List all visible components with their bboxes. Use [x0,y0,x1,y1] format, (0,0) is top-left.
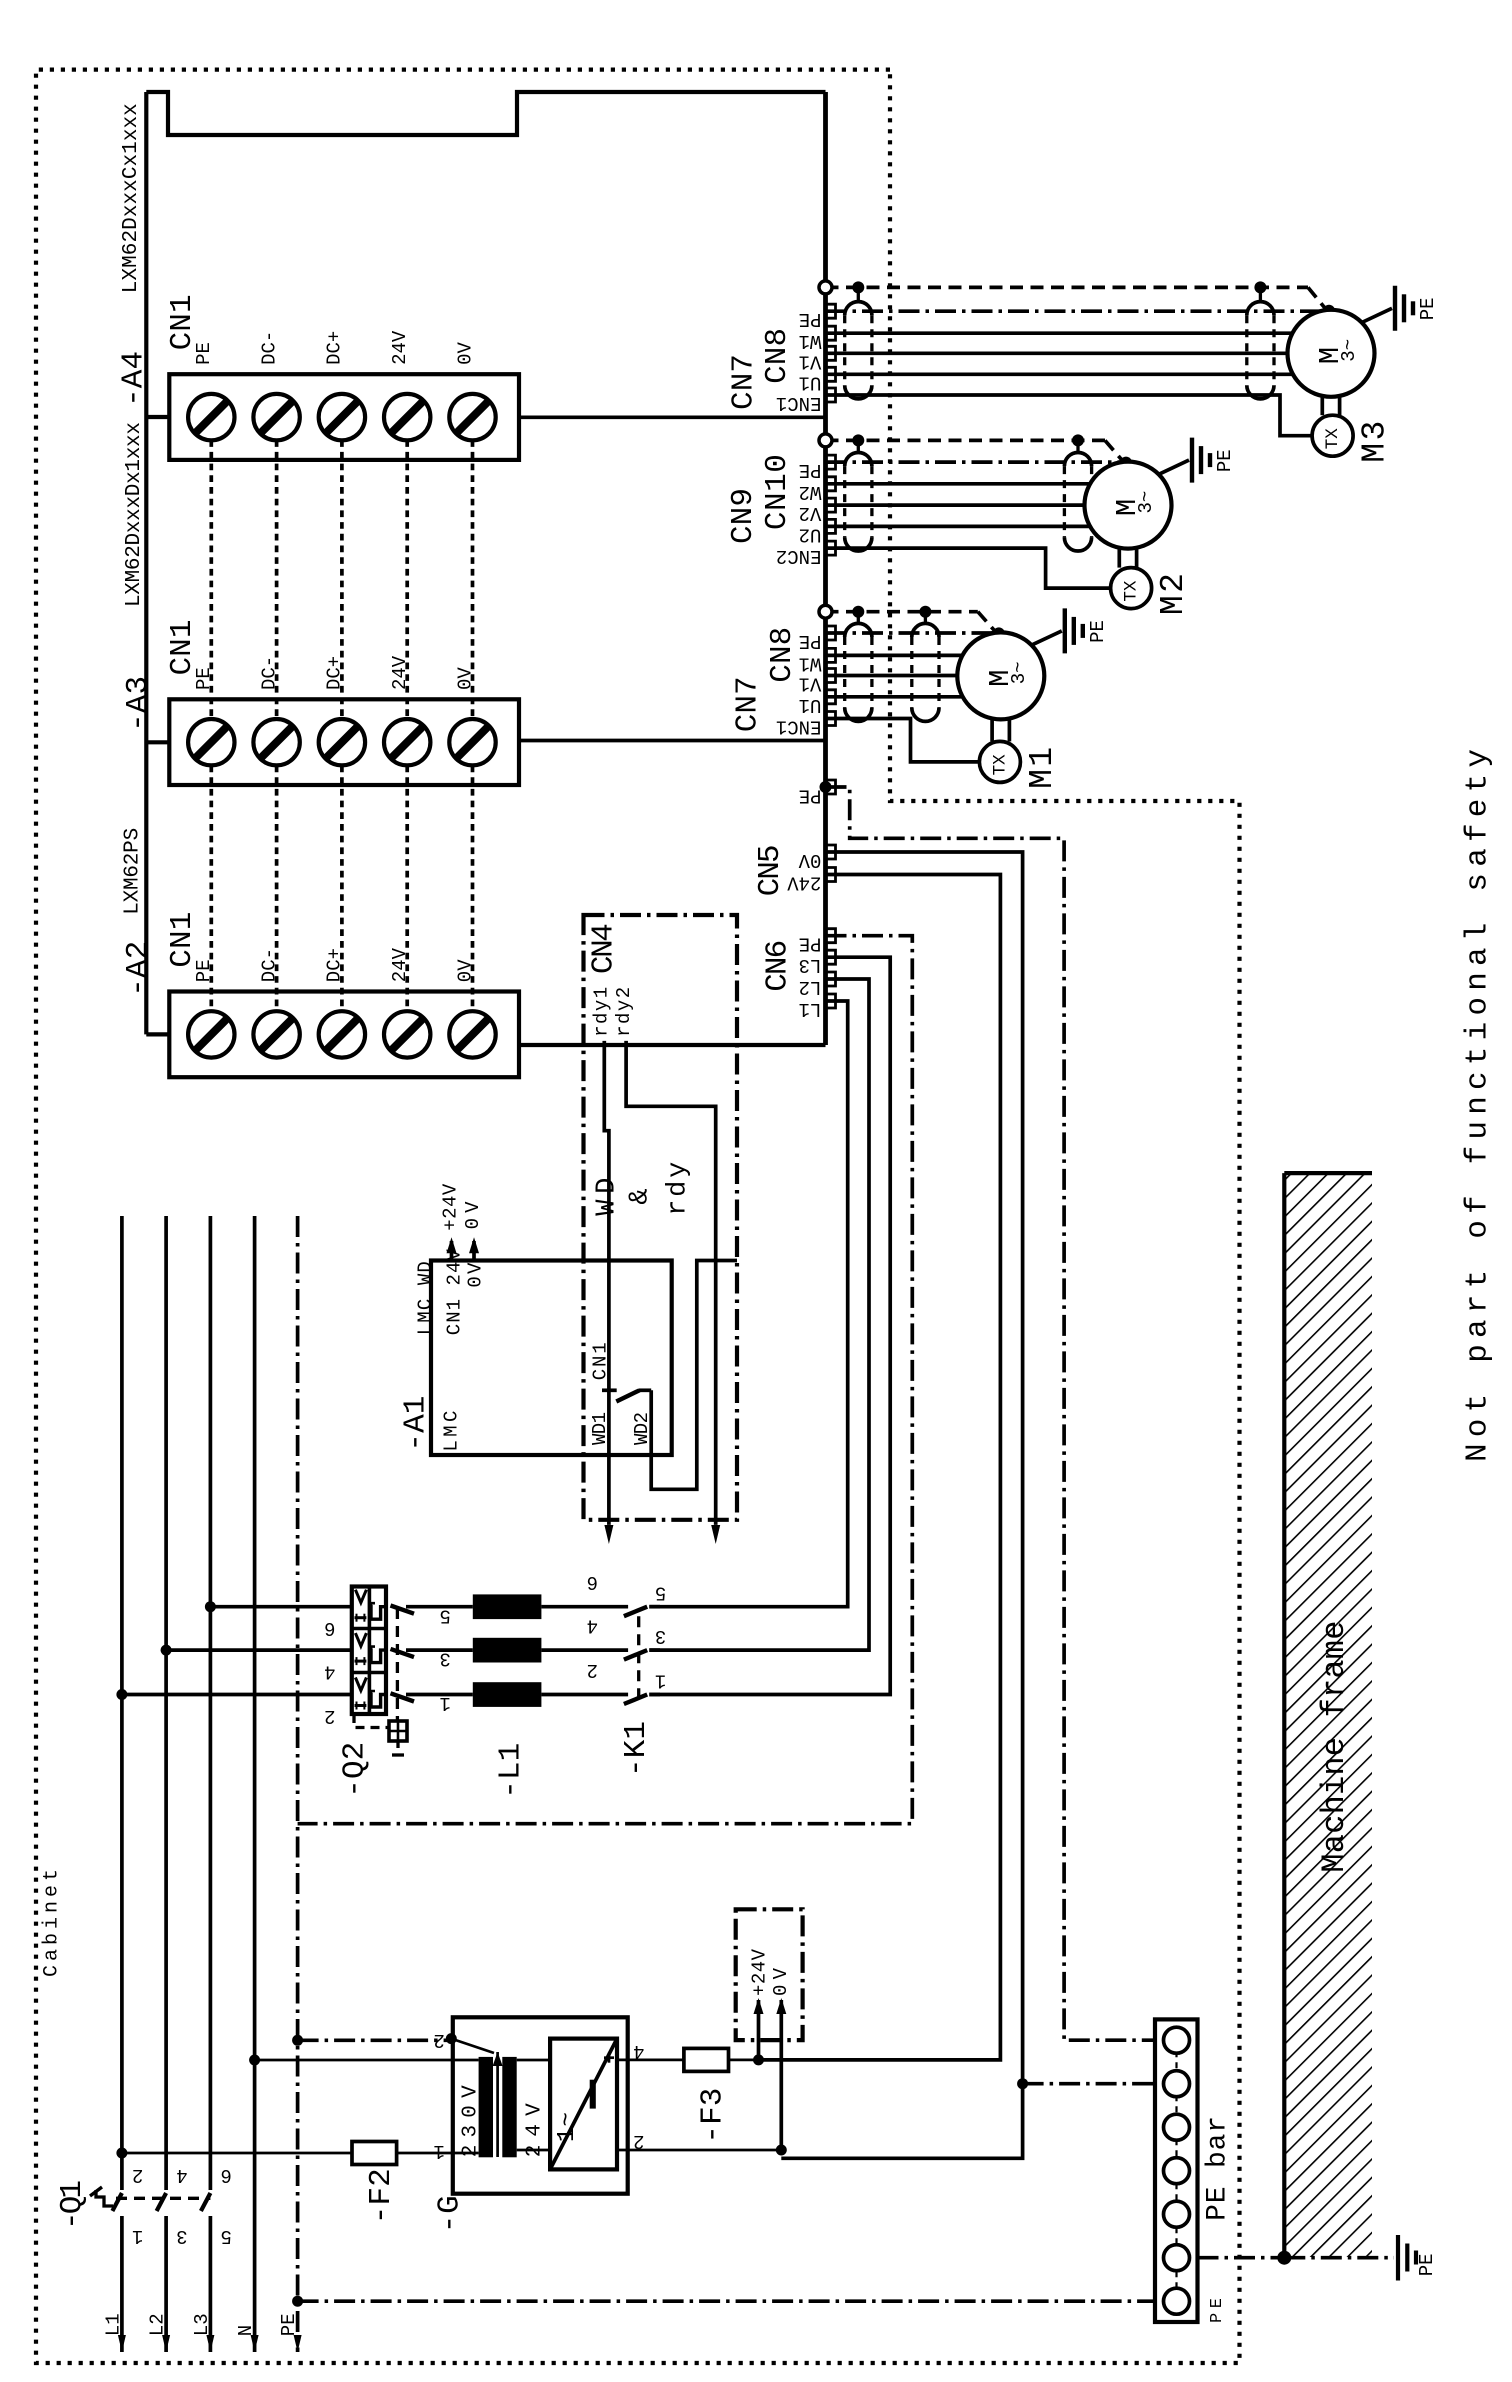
PE bar hole [1164,2027,1190,2053]
svg-text:-L1: -L1 [494,1743,529,1799]
mains line N [253,1216,257,2352]
svg-text:CN5: CN5 [753,844,788,896]
wire F3 out [729,2059,759,2062]
svg-text:rdy: rdy [664,1162,694,1216]
drive unit LXM62 outline [146,92,825,135]
screw slash 24V -A3 [391,726,423,758]
machine frame top cap [1284,1171,1372,1175]
PE bar hole [1164,2158,1190,2184]
junction dot shield M1 clamp 2 [919,606,931,618]
screw terminal DC- -A4 [253,394,299,440]
screw terminal 24V -A3 [384,719,430,765]
dc bus wire [209,766,213,1012]
screw terminal DC+ -A4 [319,394,365,440]
fuse F3 [684,2048,729,2071]
svg-text:W1: W1 [799,652,822,674]
svg-text:6: 6 [324,1617,335,1639]
motor M1 circle [957,632,1044,719]
PE bar hole [1164,2071,1190,2097]
wire WD2 to WD logic [651,1261,737,1490]
svg-text:5: 5 [439,1604,450,1626]
svg-text:L3: L3 [191,2313,213,2336]
svg-text:rdy2: rdy2 [613,987,635,1037]
ground bar long machine [1396,2235,1400,2281]
svg-text:PE: PE [1416,2253,1438,2276]
svg-text:PE: PE [278,2313,300,2336]
svg-text:1: 1 [655,1670,666,1692]
connector pin boxes on drive edge [828,626,836,640]
svg-text:-K1: -K1 [619,1721,654,1777]
PE wire M3 [826,309,1327,313]
terminal block CN1 of -A4 [169,374,519,460]
svg-text:L1: L1 [799,998,822,1020]
svg-text:PE: PE [799,459,822,481]
rectifier diagonal [550,2039,617,2170]
ENC cable M1 [826,719,980,762]
ground bar long M3 [1393,286,1397,331]
screw slash DC- -A2 [261,1018,293,1050]
cable shield clamp M2 clamp 1 [843,466,846,537]
svg-text:-F2: -F2 [364,2168,399,2224]
terminal block CN1 of -A2 [169,992,519,1078]
K1 blade row 3 [624,1695,647,1705]
svg-text:PE bar: PE bar [1203,2116,1234,2221]
dc bus wire [471,766,475,1012]
wire winding to rectifier top [517,2059,550,2062]
screw terminal 0V -A4 [449,394,495,440]
screw slash DC- -A3 [261,726,293,758]
dc bus wire [405,440,409,719]
mains line L3 [209,1216,213,2352]
arrow rdy1/WD1 signal [604,1525,613,1544]
svg-text:Machine frame: Machine frame [1316,1621,1353,1873]
Q2 manual operator [389,1721,407,1741]
dc bus wire [275,440,279,719]
arrow mains L3 [206,2335,214,2352]
line choke L1 [473,1594,542,1619]
wire CN6 PE to mains PE [298,936,913,1824]
svg-text:DC-: DC- [258,656,280,690]
contact terminal WD2 [639,1388,651,1392]
phase wire L1 to Q2 [122,1693,352,1697]
junction dot shield M2 clamp 2 [1072,434,1084,446]
encoder TX M1 [979,741,1020,782]
screw terminal DC+ -A3 [319,719,365,765]
svg-text:N: N [235,2325,257,2336]
Q2 blade row 1 [391,1606,415,1614]
screw slash PE -A4 [195,401,227,433]
main switch Q1 [119,2190,124,2216]
svg-text:DC+: DC+ [324,331,346,365]
svg-text:-A4: -A4 [116,351,151,407]
svg-text:PE: PE [1417,297,1439,320]
junction dot N control tap [249,2055,260,2066]
screw terminal 24V -A4 [384,394,430,440]
svg-text:V2: V2 [799,502,822,524]
wire PE to PE bar bottom [298,2299,1155,2303]
controller A1 LMC box [431,1261,672,1456]
encoder TX M2 [1111,568,1152,609]
wire 0V CN5 to supply [781,852,1022,2158]
arrow mains PE [294,2335,302,2352]
svg-text:ENC1: ENC1 [776,392,822,414]
wire V M2 [826,503,1085,507]
svg-text:ENC1: ENC1 [776,716,822,738]
junction dot unit PE [820,781,832,793]
wire 0V into A1 [472,1241,476,1261]
screw slash 24V -A2 [391,1018,423,1050]
arrow mains L2 [162,2335,170,2352]
shield arrow line [451,2039,494,2053]
svg-text:3~: 3~ [1338,339,1360,362]
power supply unit -G box [453,2017,628,2193]
ground bar short machine [1414,2251,1418,2265]
Q2 linkage [396,1608,399,1721]
svg-text:0V: 0V [454,341,476,364]
ground connect diagonal M2 [1159,460,1189,474]
svg-text:CN1: CN1 [165,294,200,350]
screw slash DC+ -A3 [326,726,358,758]
svg-text:CN8: CN8 [760,328,795,384]
motor M2 circle [1085,462,1172,549]
wire L1 to F2 [122,2152,352,2155]
svg-text:1: 1 [433,2140,444,2162]
svg-text:U1: U1 [799,694,822,716]
svg-text:0V: 0V [465,1262,487,1288]
svg-text:PE: PE [799,630,822,652]
wire unit PE to PE bar [826,787,1156,2040]
K1 blade row 2 [624,1650,647,1660]
svg-text:3: 3 [176,2225,187,2247]
shaft line M1 [990,719,994,741]
K1 blade row 1 [624,1607,647,1617]
svg-text:CN1: CN1 [165,620,200,676]
junction dot shield at motor M3 [1323,305,1335,317]
functional safety dash-dot box [584,915,738,1520]
screw terminal DC+ -A2 [319,1011,365,1057]
svg-text:PE: PE [799,308,822,330]
mains PE line [296,1216,300,2352]
Q2 blade row 2 [391,1649,415,1657]
svg-text:Cabinet: Cabinet [41,1869,64,1977]
wire V M1 [826,674,958,678]
shaft line M2 [1117,549,1121,568]
junction dot shield M1 clamp 1 [852,606,864,618]
drive unit connector edge [823,92,828,1045]
screw terminal DC- -A2 [253,1011,299,1057]
0V arrow line [779,2000,783,2150]
junction dot +24V [753,2054,764,2065]
wire winding to rectifier bottom [517,2149,550,2152]
ENC cable M3 [826,395,1313,436]
junction dot shield [446,2033,457,2044]
wire choke to K1 row 1 [541,1605,628,1609]
dc bus wire [471,440,475,719]
transformer windings [479,2057,493,2157]
junction dot 0V to PE bar [1017,2078,1028,2089]
Q2 internal divider [368,1587,372,1715]
svg-text:1~: 1~ [554,2112,581,2142]
shield ring at edge M2 [819,434,832,447]
dc bus wire [340,440,344,719]
wire rect - out [617,2149,781,2152]
ground bar mid M1 [1072,617,1076,645]
shield wire M3 [826,286,1309,290]
screw slash DC- -A4 [261,401,293,433]
svg-text:1: 1 [132,2225,143,2247]
svg-text:Not part of functional safety: Not part of functional safety [1461,749,1496,1462]
screw slash PE -A2 [195,1018,227,1050]
phase wire L3 to Q2 [210,1605,351,1609]
svg-text:-A3: -A3 [121,676,156,732]
svg-text:CN8: CN8 [765,627,800,683]
PE bar hole [1164,2201,1190,2227]
svg-text:CN10: CN10 [760,454,795,530]
Q2 cell divider [352,1627,386,1631]
svg-text:+24V: +24V [749,1948,771,1996]
wire rdy2 [626,1041,716,1525]
svg-text:U2: U2 [799,523,822,545]
PE bar hole [1164,2245,1190,2271]
wire V M3 [826,351,1288,355]
cable shield clamp M3 clamp 1 [843,315,846,385]
Q1 blade pole L2 [157,2193,167,2211]
PE bar [1155,2019,1198,2322]
junction dot L1 control tap [116,2148,127,2159]
svg-text:TX: TX [990,754,1010,776]
svg-text:3~: 3~ [1008,661,1030,684]
svg-text:LXM62DxxxDx1xxx: LXM62DxxxDx1xxx [123,422,146,607]
junction dot shield at motor M1 [993,627,1005,639]
svg-text:3: 3 [655,1625,666,1647]
wire stub left -A2 CN1 [146,1032,169,1036]
ground bar mid M2 [1199,446,1203,474]
shield ring at edge M3 [819,281,832,294]
screw slash 0V -A3 [457,726,489,758]
screw slash 0V -A2 [457,1018,489,1050]
wire +24V into A1 [450,1241,454,1261]
wire U M2 [826,525,1094,529]
svg-text:PE: PE [799,785,822,807]
contact terminal WD1 [602,1388,617,1392]
plus sign [604,2056,614,2059]
svg-text:-G: -G [432,2195,467,2233]
svg-text:6: 6 [587,1571,598,1593]
mains line L1 [120,1216,124,2352]
wire CN6 L3 to K1 [649,957,890,1694]
svg-text:L2: L2 [147,2313,169,2336]
junction dot machine frame PE [1277,2251,1291,2265]
Q2 operator link [354,1714,389,1728]
cable shield clamp M3 clamp 2 [1245,315,1248,385]
svg-text:L1: L1 [102,2313,124,2336]
ground bar short M1 [1081,624,1085,638]
circuit breaker Q2 [352,1587,386,1715]
rectifier block [550,2039,617,2170]
wire W M2 [826,482,1094,486]
shield wire M2 [826,439,1106,443]
Q1 linkage [116,2197,210,2200]
fuse F2 [352,2142,397,2165]
PE bar hole [1164,2114,1190,2140]
ENC cable M2 [826,548,1111,588]
arrow mains N [251,2335,259,2352]
ground connect diagonal M1 [1032,631,1062,645]
Q1 blade pole L3 [201,2193,211,2211]
junction dot shield at motor M2 [1120,457,1132,469]
shield ring at edge M1 [819,605,832,618]
screw terminal PE -A3 [188,719,234,765]
svg-text:U1: U1 [799,371,822,393]
svg-text:PE: PE [1214,449,1236,472]
wire U M3 [826,372,1297,376]
screw slash 0V -A4 [457,401,489,433]
svg-text:ENC2: ENC2 [776,545,822,567]
junction dot shield M3 clamp 1 [852,281,864,293]
wire stub left -A3 CN1 [146,740,169,744]
svg-text:LXM62PS: LXM62PS [122,828,145,915]
screw terminal 24V -A2 [384,1011,430,1057]
junction dot shield M3 clamp 2 [1254,281,1266,293]
dc bus wire [405,766,409,1012]
svg-text:24V: 24V [787,872,822,894]
wire stub left -A4 CN1 [146,415,169,419]
svg-text:LMC WD: LMC WD [414,1261,436,1335]
encoder TX M3 [1312,415,1353,456]
cable shield clamp M1 clamp 2 [910,637,913,708]
wire PE bar to machine frame [1198,2256,1285,2260]
drive unit top edge (landscape) / portrait left line [144,92,148,1034]
K1 linkage [637,1616,640,1703]
svg-text:1: 1 [439,1692,450,1714]
svg-text:L2: L2 [799,976,822,998]
screw slash DC+ -A4 [326,401,358,433]
svg-text:DC+: DC+ [324,656,346,690]
svg-text:DC-: DC- [258,331,280,365]
svg-text:24V: 24V [389,655,411,690]
Q1 manual operator [96,2190,113,2206]
cable shield clamp M2 clamp 2 [1063,466,1066,537]
arrow rdy2 signal [711,1525,720,1544]
shield wire diagonal M1 [978,612,998,635]
wire to machine ground [1284,2256,1394,2260]
screw terminal 0V -A3 [449,719,495,765]
shield line between windings [496,2052,499,2157]
dc bus wire [209,440,213,719]
Q2 pole elements row 1 [355,1590,366,1603]
screw terminal PE -A2 [188,1011,234,1057]
wire U M1 [826,695,966,699]
Q2 pole elements row 3 [355,1678,366,1691]
svg-text:2: 2 [132,2164,143,2186]
machine frame edge [1282,1173,1286,2258]
screw slash 24V -A4 [391,401,423,433]
contact blade WD [616,1390,639,1401]
shield arrow head [493,2052,503,2066]
motor M3 circle [1288,310,1375,397]
screw slash DC+ -A2 [326,1018,358,1050]
Q1 blade pole L1 [112,2193,122,2211]
drive unit left edge (landscape) [519,1043,826,1047]
ground bar mid M3 [1402,294,1406,322]
screw terminal DC- -A3 [253,719,299,765]
wire CN6 L2 to K1 [649,979,869,1650]
svg-text:3~: 3~ [1135,491,1157,514]
svg-text:PE: PE [1087,620,1109,643]
svg-text:-F3: -F3 [695,2088,730,2144]
wire 0V bond to PE bar [1023,2082,1155,2086]
svg-text:+24V: +24V [439,1183,461,1231]
svg-text:CN1: CN1 [165,912,200,968]
svg-text:W2: W2 [799,481,822,503]
svg-text:CN7: CN7 [726,354,761,410]
svg-text:CN4: CN4 [587,923,622,974]
svg-text:CN9: CN9 [726,488,761,544]
wire N to transformer [255,2059,479,2062]
wire choke to K1 row 3 [541,1693,628,1697]
svg-text:CN1: CN1 [590,1342,612,1380]
Q2 blade row 3 [391,1693,415,1701]
screw terminal PE -A4 [188,394,234,440]
cabinet dotted border [36,70,1240,2363]
shield wire diagonal M2 [1105,440,1125,463]
screw slash PE -A3 [195,726,227,758]
shield wire M1 [826,610,978,614]
shield wire diagonal M3 [1308,287,1328,311]
junction dot 0V [776,2145,787,2156]
wire F2 to transformer [397,2152,479,2155]
junction dot L2 tap [161,1645,172,1656]
svg-text:6: 6 [220,2164,231,2186]
+24V arrow line [757,2000,761,2060]
mains line L2 [164,1216,168,2352]
svg-text:-Q2: -Q2 [337,1742,372,1798]
svg-text:TX: TX [1122,580,1142,602]
svg-text:PE: PE [799,933,822,955]
ground connect diagonal M3 [1362,308,1392,322]
ground bar mid machine [1405,2244,1409,2272]
shaft line M3 [1320,397,1324,415]
wire PE to PSU shield [298,2038,452,2042]
Q2 cell divider [352,1671,386,1675]
junction dot PE bottom branch [292,2296,303,2307]
Q2 pole elements row 2 [355,1633,366,1646]
wire CN6 L1 to K1 [649,1001,847,1607]
terminal block CN1 of -A3 [169,699,519,785]
svg-text:L3: L3 [799,954,822,976]
dc bus wire [340,766,344,1012]
dc bus wire [275,766,279,1012]
svg-text:-A2: -A2 [121,941,156,997]
junction dot L1 tap [116,1689,127,1700]
svg-text:LMC: LMC [441,1411,463,1452]
svg-text:4: 4 [587,1614,598,1636]
svg-text:24V: 24V [389,330,411,365]
junction dot L3 tap [205,1601,216,1612]
svg-text:CN7: CN7 [731,676,766,732]
ground bar long M1 [1063,608,1067,653]
svg-text:W1: W1 [799,330,822,352]
svg-text:2: 2 [587,1659,598,1681]
wire rdy1 [604,1041,609,1525]
svg-text:5: 5 [220,2225,231,2247]
wire choke to K1 row 2 [541,1648,628,1652]
svg-text:LXM62DxxxCx1xxx: LXM62DxxxCx1xxx [120,103,143,293]
svg-text:CN6: CN6 [760,940,795,992]
wire stub -A4 CN1 to edge [519,415,826,419]
svg-text:rdy1: rdy1 [590,987,612,1037]
wire W M3 [826,331,1297,335]
